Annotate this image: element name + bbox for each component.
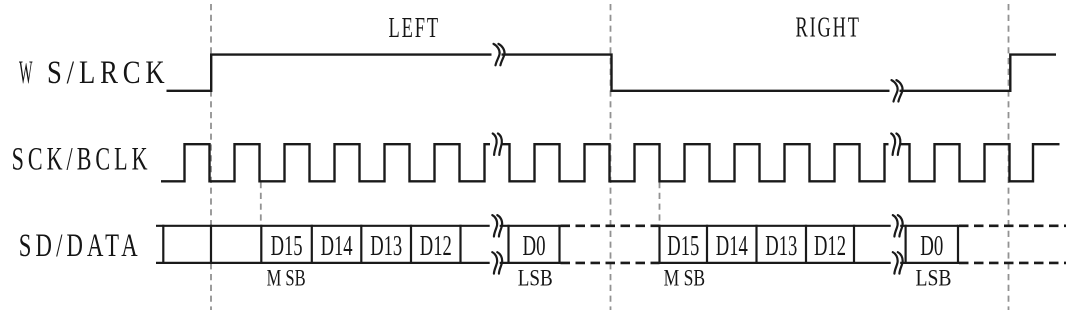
svg-text:D13: D13 — [765, 230, 797, 262]
wire SD/DATA top line dashed (right end) — [959, 225, 1066, 228]
svg-text:LSB: LSB — [518, 266, 553, 291]
node break mark on SD bottom line (right) — [893, 252, 903, 273]
svg-text:D0: D0 — [920, 230, 943, 262]
wire SD/DATA bottom line dashed (right end) — [959, 262, 1066, 265]
node SD cell dividers (left word) — [163, 225, 559, 264]
wire SCK/BCLK segment 2 (clock pulses, middle) — [501, 144, 888, 181]
svg-text:D13: D13 — [370, 230, 402, 262]
svg-text:D14: D14 — [716, 230, 748, 262]
node frame-divider dashed line 1 (start of LEFT word) — [210, 4, 212, 310]
svg-text:SD/DATA: SD/DATA — [19, 228, 142, 264]
node break mark on WS high (left) — [494, 44, 505, 65]
node MSB latch tick right (dashed stub) — [659, 182, 661, 225]
wire SCK/BCLK segment 3 (clock pulses, right) — [899, 144, 1059, 181]
svg-text:LSB: LSB — [916, 266, 952, 291]
wire WS/LRCK segment 3 (low then high, right) — [900, 55, 1057, 91]
svg-text:LEFT: LEFT — [389, 12, 441, 44]
node break mark on SD bottom line (left) — [492, 252, 502, 273]
wire SD/DATA top line dashed (between words) — [561, 225, 660, 228]
node break mark on WS low (right) — [892, 80, 903, 101]
wire SD/DATA bottom line dashed (between words) — [561, 262, 660, 265]
node SD cell dividers (right word) — [660, 225, 959, 264]
wire SD/DATA top line solid (left) — [156, 225, 560, 227]
node break mark on SD top line (left) — [492, 215, 502, 236]
node break mark on SD top line (right) — [893, 215, 903, 236]
node break mark on SCK (left) — [493, 134, 502, 155]
wire SD/DATA bottom line solid (left) — [156, 262, 560, 264]
svg-text:D14: D14 — [321, 230, 353, 262]
wire SD/DATA top line solid (right) — [660, 225, 959, 227]
node MSB latch tick left (dashed stub) — [260, 182, 262, 225]
node break mark on SCK (right) — [891, 134, 900, 155]
node frame-divider dashed line 3 (end of RIGHT word) — [1008, 4, 1010, 310]
svg-text:D15: D15 — [667, 230, 699, 262]
svg-text:SCK/BCLK: SCK/BCLK — [12, 142, 152, 178]
node frame-divider dashed line 2 (start of RIGHT word) — [610, 4, 612, 310]
wire WS/LRCK segment 2 (high then low, middle) — [502, 55, 890, 91]
svg-text:W: W — [19, 55, 33, 91]
svg-text:S/LRCK: S/LRCK — [47, 55, 170, 91]
svg-text:D15: D15 — [271, 230, 303, 262]
wire WS/LRCK segment 1 (low then high, left) — [167, 55, 492, 91]
wire SD/DATA bottom line solid (right) — [660, 262, 959, 264]
svg-text:M SB: M SB — [664, 266, 706, 291]
wire SCK/BCLK segment 1 (clock pulses, left) — [161, 144, 490, 181]
svg-text:D12: D12 — [814, 230, 846, 262]
svg-text:RIGHT: RIGHT — [796, 12, 861, 44]
svg-text:D12: D12 — [420, 230, 452, 262]
svg-text:D0: D0 — [523, 230, 546, 262]
svg-text:M SB: M SB — [267, 266, 306, 291]
